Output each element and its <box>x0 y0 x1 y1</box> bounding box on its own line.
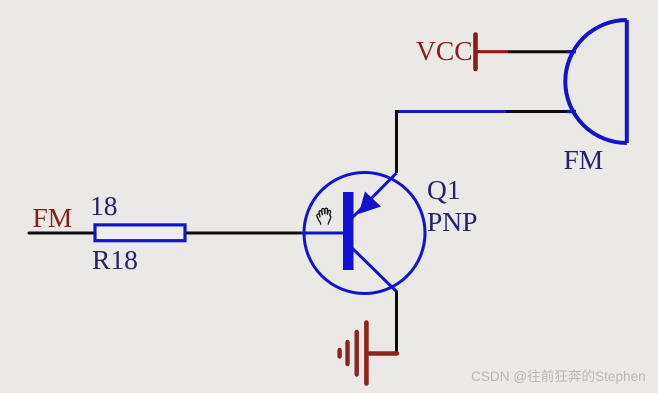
resistor R18 <box>95 225 185 241</box>
wire <box>506 110 570 113</box>
power symbol VCC <box>476 35 509 70</box>
wire <box>395 110 506 113</box>
svg-text:FM: FM <box>33 202 73 233</box>
wire <box>395 110 398 173</box>
svg-text:18: 18 <box>90 190 118 221</box>
svg-text:CSDN @往前狂奔的Stephen: CSDN @往前狂奔的Stephen <box>471 368 646 384</box>
wire <box>29 232 95 235</box>
svg-text:PNP: PNP <box>427 206 477 237</box>
cursor hand <box>317 208 331 224</box>
svg-text:R18: R18 <box>92 244 138 275</box>
transistor Q1 <box>301 173 425 294</box>
buzzer LS FM <box>565 20 627 143</box>
svg-text:Q1: Q1 <box>427 174 461 205</box>
wire <box>508 50 570 53</box>
svg-text:VCC: VCC <box>416 35 473 66</box>
wire <box>395 291 398 354</box>
svg-text:FM: FM <box>564 144 604 175</box>
ground <box>340 323 397 384</box>
wire <box>186 232 304 235</box>
